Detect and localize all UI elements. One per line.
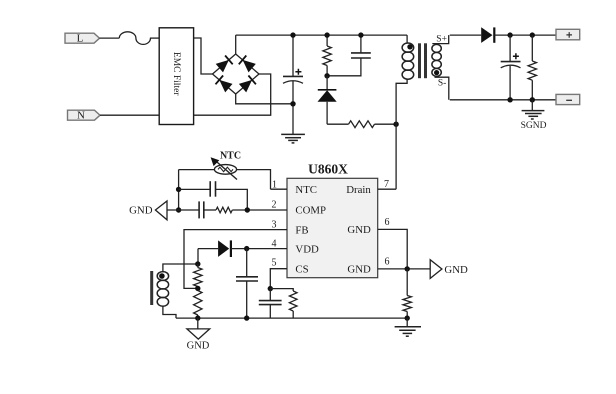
capacitor C comp upper (179, 181, 248, 210)
capacitor C1 bulk electrolytic (283, 35, 303, 134)
node R load top (530, 32, 535, 37)
node aux gnd (195, 315, 200, 320)
pin 7 stub (378, 188, 396, 190)
resistor R comp (216, 207, 232, 213)
capacitor C output electrolytic (501, 35, 521, 100)
capacitor C snubber (327, 35, 371, 76)
svg-text:CS: CS (295, 263, 308, 275)
svg-text:L: L (77, 33, 84, 45)
node bottom rail gnd (405, 315, 410, 320)
svg-text:EMC Filter: EMC Filter (171, 52, 181, 96)
node snubber/drain (393, 122, 398, 127)
svg-text:Drain: Drain (346, 184, 371, 196)
secondary polarity dot (434, 70, 439, 75)
svg-text:COMP: COMP (295, 205, 326, 217)
node R snubber top rail (324, 32, 329, 37)
node C snubber top rail (358, 32, 363, 37)
wire N to EMC (100, 114, 159, 116)
svg-text:GND: GND (347, 264, 371, 276)
node FB tap (195, 286, 200, 291)
svg-text:3: 3 (272, 219, 277, 230)
inductor L aux winding (157, 264, 198, 318)
wire bridge - to bulk cap node (236, 94, 293, 104)
svg-text:7: 7 (384, 179, 389, 190)
svg-text:5: 5 (272, 258, 277, 269)
resistor R snubber (323, 35, 331, 76)
transformer core (420, 43, 426, 78)
svg-text:GND: GND (187, 340, 210, 351)
wire NTC top line (179, 169, 215, 171)
capacitor C comp series (199, 201, 204, 218)
ground arrow GND down (187, 318, 210, 351)
fuse F1 (119, 32, 150, 45)
diode D clamp (318, 76, 337, 124)
svg-text:NTC: NTC (220, 151, 241, 162)
node aux top (195, 261, 200, 266)
diode D vdd (198, 240, 247, 257)
diode D output (481, 27, 510, 43)
pin 1 stub (271, 188, 288, 190)
node D out / C out (507, 32, 512, 37)
svg-text:1: 1 (272, 179, 277, 190)
node C out bottom (507, 97, 512, 102)
wire secondary to D out (450, 34, 481, 36)
pin 6 lower stub (378, 268, 431, 270)
node vdd diode cap (244, 246, 249, 251)
wire EMC bottom out to bridge AC2 (194, 74, 271, 115)
node CS (268, 286, 273, 291)
primary polarity dot (407, 44, 412, 49)
wire VDD (247, 248, 287, 250)
svg-text:6: 6 (385, 256, 390, 267)
node comp upper (176, 187, 181, 192)
node C vdd bottom (244, 315, 249, 320)
wire vdd left drop (197, 249, 199, 264)
svg-text:N: N (77, 110, 85, 122)
wire output top rail (510, 34, 556, 36)
wire bridge + to top rail (235, 35, 237, 54)
earth ground right (395, 318, 421, 336)
terminal L (65, 33, 100, 45)
node R load bottom (530, 97, 535, 102)
svg-text:S-: S- (438, 78, 446, 88)
node bridge/C1 (290, 101, 295, 106)
ground arrow GND right (430, 260, 468, 279)
wire comp line (167, 209, 199, 211)
wire FB (184, 230, 287, 289)
capacitor C vdd (236, 249, 258, 319)
top rail wire (236, 34, 407, 36)
svg-text:FB: FB (295, 224, 308, 236)
terminal - (556, 94, 580, 104)
wire bottom rail (176, 317, 407, 319)
pin 6 upper stub (378, 229, 408, 269)
resistor R snubber return (349, 121, 375, 128)
svg-text:VDD: VDD (295, 244, 319, 256)
wire CS (270, 269, 287, 289)
resistor R divider lower (194, 291, 202, 319)
capacitor C cs (259, 289, 282, 319)
node snubber RC junction (324, 73, 329, 78)
wire snubber return with resistor (327, 123, 348, 125)
SGND ground (521, 100, 547, 131)
thermistor NTC (211, 157, 237, 179)
transformer T1 primary (396, 35, 414, 124)
svg-text:GND: GND (347, 224, 371, 236)
ground arrow GND left (129, 201, 167, 220)
transformer T1 secondary (432, 35, 449, 100)
wire drain riser (395, 124, 397, 189)
wire fuse to EMC (150, 37, 159, 39)
resistor R cs (270, 289, 297, 319)
node comp line left (176, 207, 181, 212)
wire EMC top out to bridge AC1 (194, 38, 213, 74)
ground under C1 (281, 134, 305, 143)
node GND pins junction (405, 266, 410, 271)
terminal N (68, 110, 101, 122)
aux core bar (150, 271, 153, 305)
aux polarity dot (159, 273, 165, 279)
svg-text:6: 6 (385, 217, 390, 228)
svg-text:S+: S+ (436, 35, 447, 45)
resistor R load (528, 35, 536, 100)
wire left riser (178, 170, 180, 210)
node C1 top rail (290, 32, 295, 37)
resistor R divider upper (194, 264, 202, 291)
svg-text:NTC: NTC (295, 184, 317, 196)
svg-text:GND: GND (444, 264, 468, 276)
wire L to fuse (100, 37, 120, 39)
svg-text:U860X: U860X (308, 161, 348, 176)
node comp/cap junction (245, 207, 250, 212)
bridge rectifier BR1 (213, 54, 260, 94)
EMC filter block (159, 28, 193, 125)
op-amp U1 U860X controller (287, 161, 378, 277)
svg-text:2: 2 (272, 200, 277, 211)
resistor R gnd right (403, 269, 411, 318)
svg-text:SGND: SGND (521, 121, 547, 131)
wire bottom output rail (450, 99, 556, 101)
svg-text:GND: GND (129, 205, 153, 217)
terminal + (556, 29, 580, 40)
